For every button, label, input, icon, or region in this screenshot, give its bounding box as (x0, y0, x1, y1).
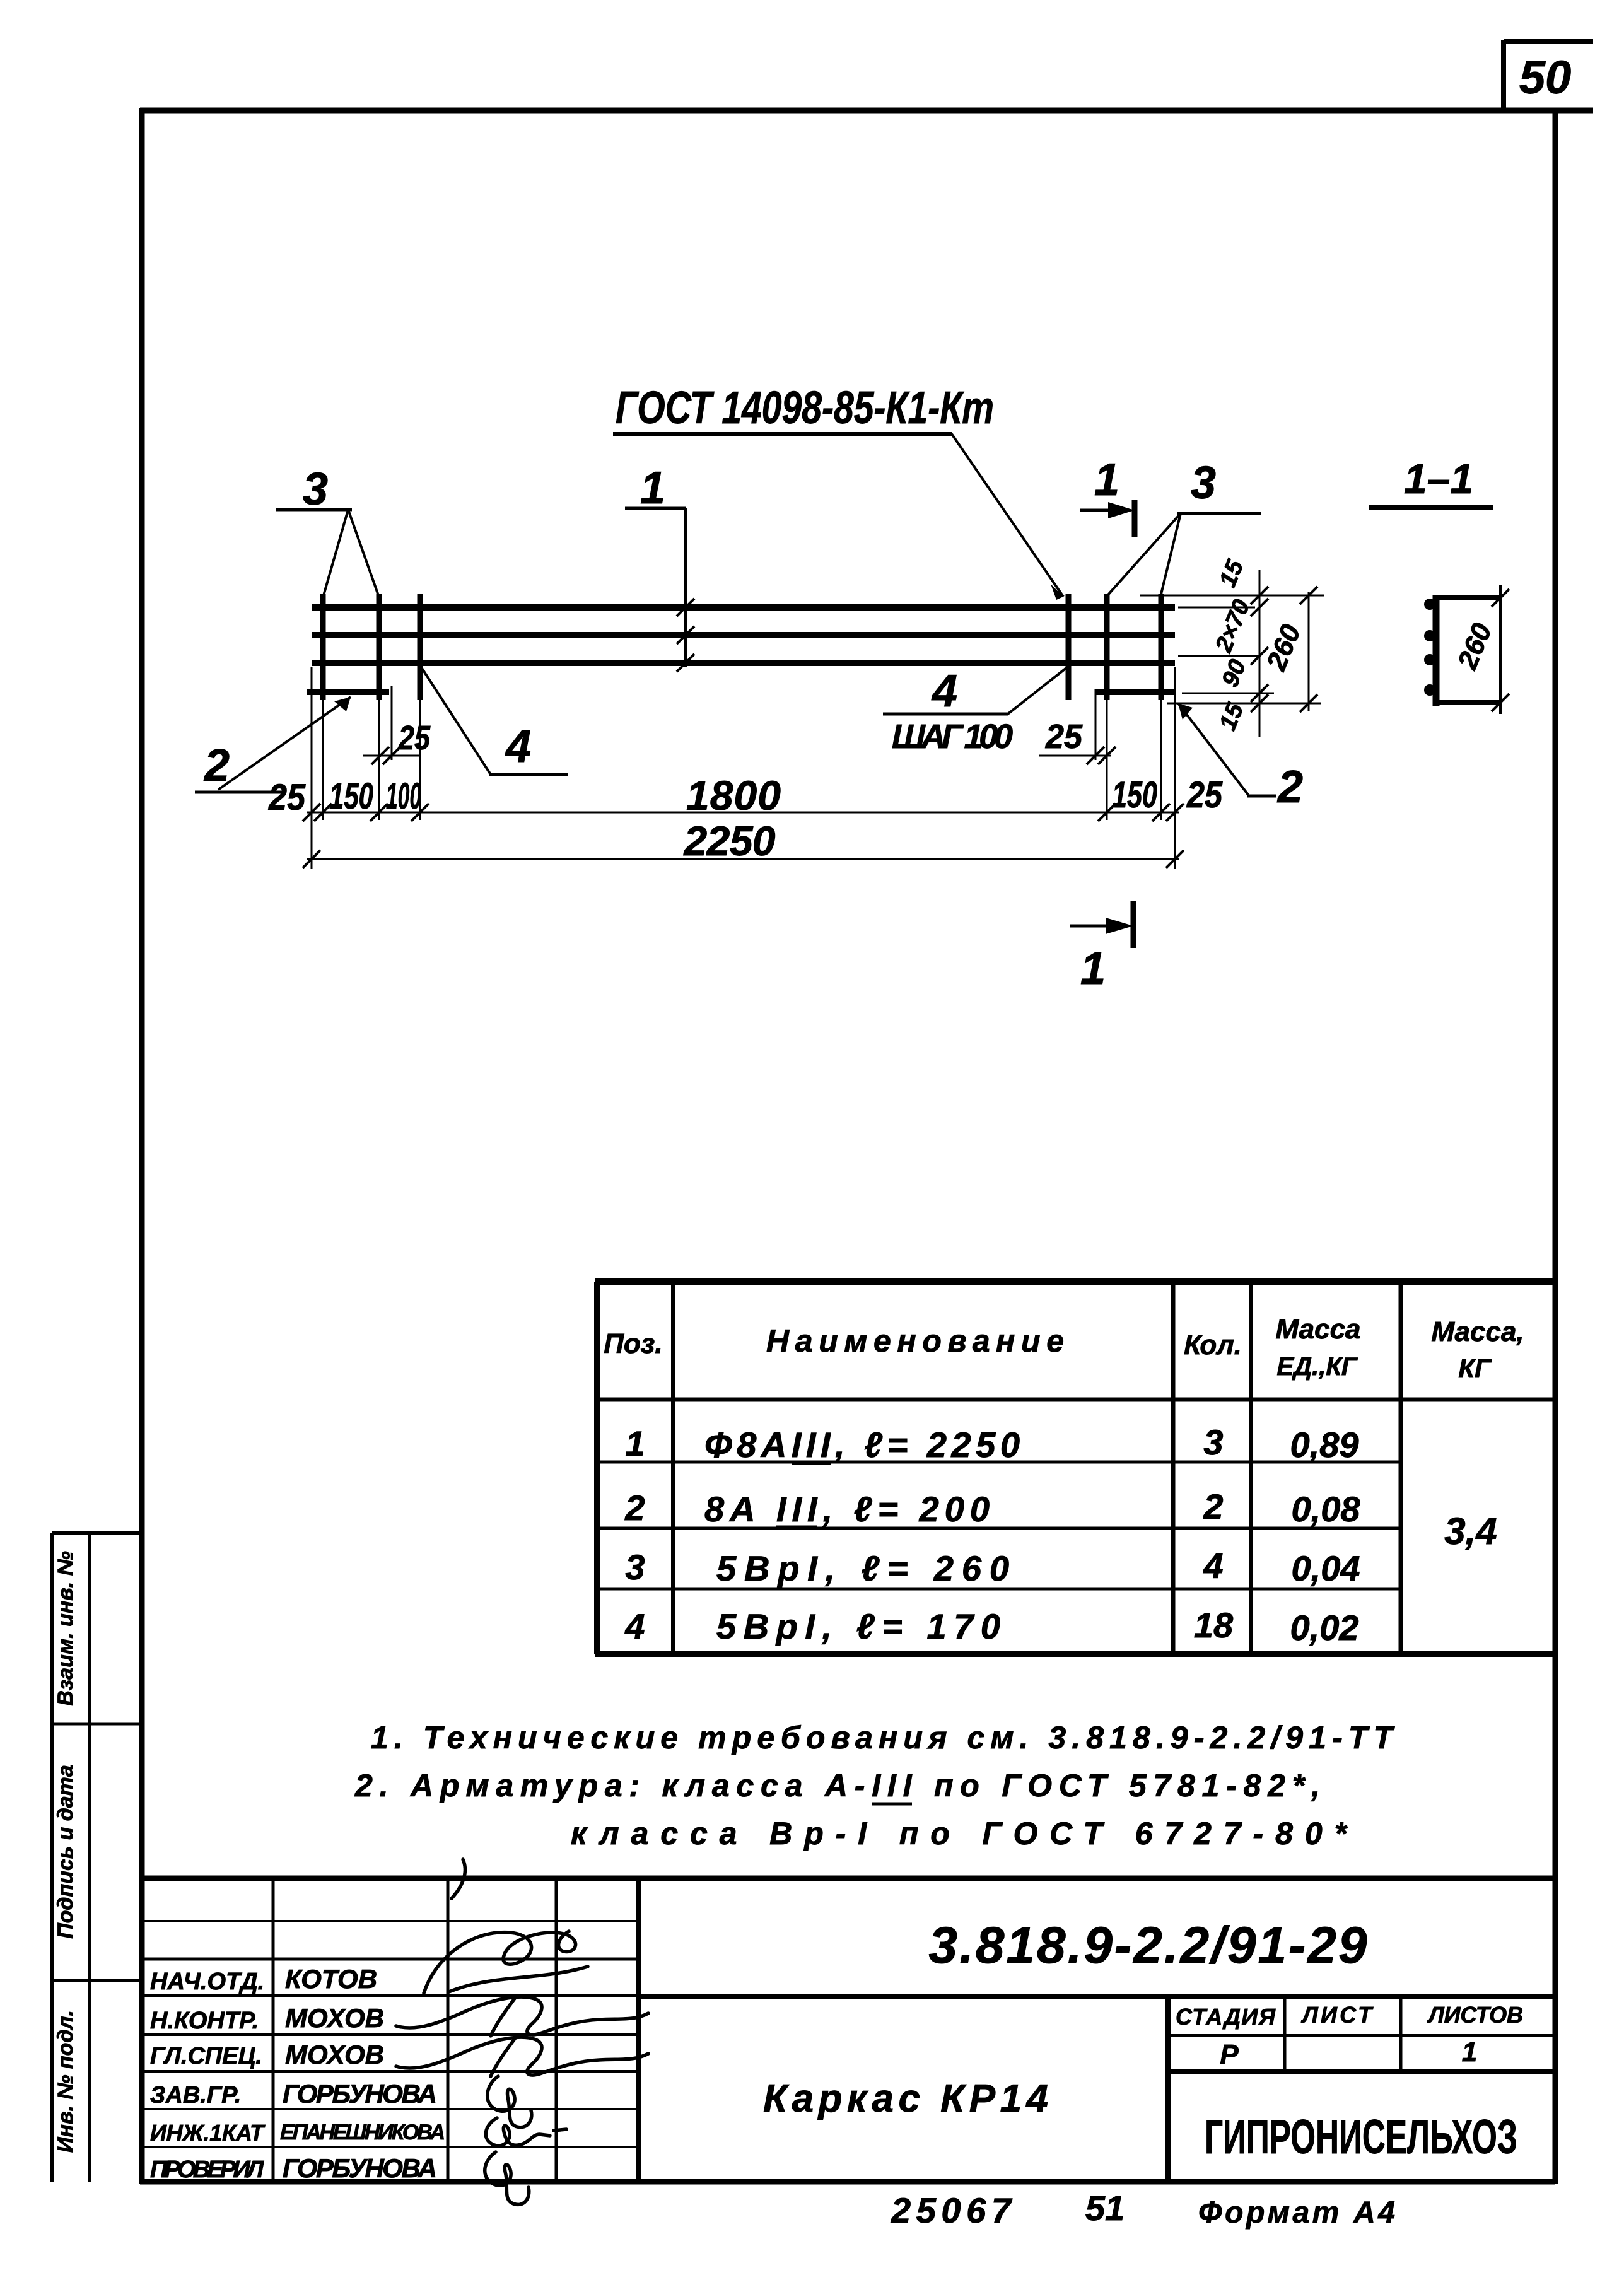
table col line poz (671, 1282, 675, 1654)
svg-text:Поз.: Поз. (604, 1328, 662, 1359)
svg-text:1: 1 (625, 1424, 645, 1463)
svg-text:3,4: 3,4 (1444, 1510, 1497, 1552)
svg-text:КОТОВ: КОТОВ (285, 1964, 377, 1994)
svg-text:3: 3 (1203, 1422, 1223, 1462)
table col line massa-ed (1249, 1282, 1253, 1654)
border left (139, 108, 145, 2184)
section dim line 260 (1499, 585, 1502, 714)
strip row line 2 (52, 1979, 142, 1982)
stage header underline (1168, 2034, 1555, 2037)
svg-text:2250: 2250 (683, 817, 776, 864)
tick marks chain (303, 804, 320, 821)
extension top bar (1178, 607, 1255, 609)
section bar dot 1 (1424, 599, 1435, 610)
table left (594, 1282, 600, 1654)
svg-text:КГ: КГ (1458, 1354, 1492, 1383)
svg-text:ЕД.,КГ: ЕД.,КГ (1277, 1353, 1358, 1381)
svg-text:СТАДИЯ: СТАДИЯ (1176, 2004, 1276, 2030)
extension line bar right end (1174, 667, 1176, 869)
svg-text:1800: 1800 (686, 772, 781, 819)
title row 5 (142, 2146, 639, 2148)
title row b (142, 1958, 639, 1961)
extension line stirrup R2 (1106, 700, 1108, 820)
svg-text:ГИПРОНИСЕЛЬХОЗ: ГИПРОНИСЕЛЬХОЗ (1205, 2110, 1517, 2164)
svg-text:2: 2 (624, 1488, 645, 1528)
svg-text:51: 51 (1085, 2188, 1125, 2228)
title row 3 (142, 2070, 639, 2073)
svg-text:5ВрI, ℓ= 170: 5ВрI, ℓ= 170 (716, 1606, 1000, 1646)
svg-text:3: 3 (625, 1547, 645, 1587)
BOTTOM DIMENSIONS (303, 666, 1184, 869)
svg-text:Подпись и дата: Подпись и дата (54, 1765, 78, 1939)
svg-text:ГОРБУНОВА: ГОРБУНОВА (283, 2079, 437, 2109)
signature mohov 1 (396, 1997, 648, 2035)
table col line kol (1171, 1282, 1176, 1654)
bar pos2 right (1095, 689, 1175, 695)
svg-text:0,08: 0,08 (1292, 1489, 1361, 1529)
strip left edge (50, 1533, 54, 2182)
svg-text:Формат А4: Формат А4 (1198, 2196, 1395, 2230)
title col 1 (272, 1878, 275, 2182)
stirrup pos3 left-1 (320, 594, 326, 700)
svg-text:3.818.9-2.2/91-29: 3.818.9-2.2/91-29 (929, 1917, 1367, 1974)
strip divider (88, 1533, 91, 2182)
small dim 25 left: extension + line (391, 686, 393, 760)
stirrup pos3 right-2 (1159, 594, 1164, 700)
strip top (52, 1531, 142, 1535)
svg-text:25: 25 (398, 719, 431, 757)
svg-text:4: 4 (1203, 1546, 1223, 1586)
svg-text:3: 3 (303, 464, 328, 515)
svg-text:ЛИСТОВ: ЛИСТОВ (1427, 2002, 1523, 2028)
page number box line top (1504, 39, 1593, 44)
signature kotov (424, 1931, 576, 1993)
dimension line 2250 (307, 858, 1179, 860)
bar pos1 top (312, 604, 1175, 611)
table row line 1 (597, 1461, 1401, 1464)
svg-text:НАЧ.ОТД.: НАЧ.ОТД. (150, 1968, 264, 1995)
svg-text:25: 25 (1045, 718, 1083, 756)
stage bottom (1168, 2069, 1555, 2074)
svg-text:ИНЖ.1КАТ: ИНЖ.1КАТ (150, 2120, 266, 2146)
section bar dot 3 (1424, 654, 1435, 665)
extension stirrup top (1140, 595, 1324, 597)
small dim 25 right: extension + line (1095, 689, 1097, 760)
border top (140, 108, 1593, 114)
extension line stirrup R3 (1160, 700, 1162, 820)
svg-text:Кол.: Кол. (1184, 1330, 1242, 1360)
section mark 1 top right (1080, 455, 1135, 537)
extension line stirrup L2 (378, 700, 380, 820)
signature gorbunova 2 (485, 2152, 529, 2204)
signature epaneshnikova (486, 2118, 550, 2146)
svg-text:8А III, ℓ= 200: 8А III, ℓ= 200 (704, 1489, 990, 1529)
section top wire (1433, 595, 1502, 600)
title row 2 (142, 2033, 639, 2036)
label 2 right (1178, 703, 1303, 812)
svg-text:0,02: 0,02 (1290, 1608, 1359, 1647)
svg-text:25: 25 (1186, 775, 1223, 816)
svg-text:МОХОВ: МОХОВ (285, 2003, 384, 2033)
svg-text:Инв. № подл.: Инв. № подл. (54, 2010, 78, 2153)
page number box line vertical (1501, 40, 1506, 112)
table top (595, 1278, 1555, 1285)
svg-text:Р: Р (1220, 2039, 1239, 2070)
svg-text:МОХОВ: МОХОВ (285, 2040, 384, 2069)
title row 4 (142, 2108, 639, 2110)
bar pos1 middle (312, 632, 1175, 638)
svg-text:1: 1 (1080, 944, 1106, 994)
svg-text:Масса,: Масса, (1431, 1316, 1524, 1347)
svg-text:1: 1 (1462, 2037, 1477, 2068)
extension line bar left end (311, 667, 313, 869)
chain vertical line (1259, 570, 1261, 737)
svg-text:Масса: Масса (1275, 1314, 1360, 1345)
svg-text:Каркас КР14: Каркас КР14 (763, 2077, 1048, 2120)
stage section left (1165, 1997, 1171, 2182)
stirrup pos3 right-1 (1104, 594, 1110, 700)
svg-text:4: 4 (931, 666, 957, 717)
svg-text:0,04: 0,04 (1292, 1548, 1360, 1588)
label 3 right (1107, 458, 1261, 597)
table col line massa-kg (1399, 1282, 1403, 1654)
label 1 mid section line (625, 463, 694, 672)
svg-text:4: 4 (624, 1606, 645, 1646)
svg-text:2: 2 (1203, 1487, 1223, 1526)
title top (142, 1876, 1555, 1881)
svg-text:ЕПАНЕШНИКОВА: ЕПАНЕШНИКОВА (280, 2120, 445, 2144)
title row 1 (142, 1994, 639, 1997)
svg-text:ШАГ 100: ШАГ 100 (892, 718, 1013, 756)
stirrup pos3 left-2 (377, 594, 382, 700)
svg-text:100: 100 (386, 776, 421, 817)
bar pos1 bottom (312, 660, 1175, 666)
svg-text:1–1: 1–1 (1404, 455, 1473, 502)
signatures (396, 1859, 648, 2204)
SECTION 1-1 (0, 0, 1, 1)
strip row line 1 (52, 1723, 142, 1726)
extension line stirrup L3 (419, 666, 421, 820)
extension mid (1178, 655, 1260, 657)
RIGHT VERTICAL DIMENSION CHAIN (1140, 570, 1324, 737)
svg-text:ГОСТ 14098-85-К1-Кт: ГОСТ 14098-85-К1-Кт (616, 383, 994, 433)
extension stirrup bottom (1167, 703, 1321, 705)
svg-text:3: 3 (1191, 458, 1216, 508)
dim line 260 (1308, 592, 1310, 711)
TITLE BLOCK (142, 1878, 1555, 2182)
weld label GOST 14098 (613, 383, 1063, 600)
svg-text:2: 2 (1276, 762, 1303, 812)
svg-text:ЗАВ.ГР.: ЗАВ.ГР. (150, 2082, 241, 2109)
title col 2 (447, 1878, 450, 2182)
label 4 right with shag 100 (883, 666, 1067, 756)
svg-text:4: 4 (505, 722, 531, 772)
title col 4 (636, 1878, 641, 2182)
label 3 left (276, 464, 378, 595)
extension low (1182, 693, 1274, 694)
section mark 1 bottom (1070, 901, 1133, 994)
SPEC TABLE (595, 1282, 1555, 1654)
table row line 2 (597, 1527, 1401, 1530)
CAGE DRAWING (307, 594, 1175, 700)
dimension chain line 1800 (307, 812, 1179, 814)
signature mohov 2 (396, 2037, 648, 2075)
section bottom wire (1433, 700, 1502, 705)
border right (1553, 108, 1558, 2184)
svg-text:1: 1 (1094, 455, 1119, 505)
section stirrup wire vertical (1433, 595, 1440, 706)
svg-text:Н.КОНТР.: Н.КОНТР. (150, 2008, 259, 2034)
doc cell bottom (639, 1994, 1555, 1999)
svg-text:ПРОВЕРИЛ: ПРОВЕРИЛ (150, 2156, 264, 2183)
stage col 1 (1283, 1997, 1287, 2072)
svg-text:5ВрI, ℓ= 260: 5ВрI, ℓ= 260 (716, 1548, 1009, 1588)
stirrup pos4 left (418, 594, 423, 700)
svg-text:25: 25 (268, 777, 306, 818)
svg-text:Взаим. инв. №: Взаим. инв. № (54, 1551, 78, 1705)
extension line stirrup L1 (322, 700, 324, 820)
LEFT STRIP (52, 1533, 142, 2182)
table row line 3 (597, 1588, 1401, 1591)
stage col 2 (1399, 1997, 1403, 2072)
title col 3 (555, 1878, 558, 2182)
border bottom (140, 2179, 1555, 2185)
svg-text:50: 50 (1519, 51, 1571, 103)
svg-text:ГЛ.СПЕЦ.: ГЛ.СПЕЦ. (150, 2043, 262, 2069)
table bottom (595, 1651, 1555, 1657)
svg-text:150: 150 (1112, 775, 1157, 816)
svg-text:25067: 25067 (891, 2190, 1013, 2230)
svg-text:1. Технические требования см.: 1. Технические требования см. 3.818.9-2.… (371, 1720, 1395, 1755)
signature gorbunova 1 (488, 2076, 532, 2127)
svg-text:1: 1 (640, 463, 665, 513)
stirrup pos4 right (1066, 594, 1072, 700)
table header line (595, 1398, 1555, 1402)
svg-text:18: 18 (1194, 1605, 1234, 1645)
section bar dot 2 (1424, 630, 1435, 641)
label 2 left (195, 697, 351, 792)
title row a (142, 1920, 639, 1922)
svg-text:ГОРБУНОВА: ГОРБУНОВА (283, 2153, 437, 2183)
section bar dot 4 (1424, 684, 1435, 696)
label 4 left (421, 667, 568, 775)
svg-text:0,89: 0,89 (1290, 1425, 1359, 1465)
bar pos2 left (307, 689, 389, 695)
svg-text:150: 150 (329, 776, 373, 817)
